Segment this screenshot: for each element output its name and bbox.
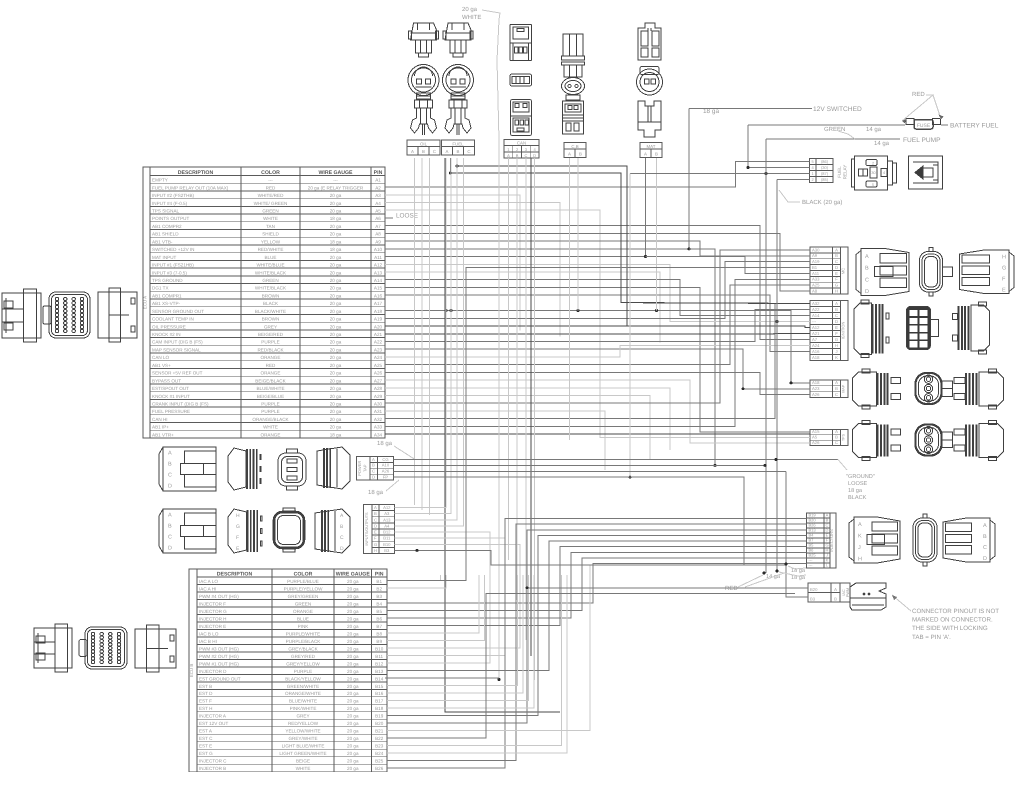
svg-text:B2: B2 xyxy=(376,586,382,591)
svg-text:A: A xyxy=(858,522,862,528)
svg-text:PURPLE: PURPLE xyxy=(261,402,279,407)
svg-text:BLACK: BLACK xyxy=(848,495,867,501)
svg-text:B20: B20 xyxy=(810,587,818,592)
svg-text:A: A xyxy=(507,153,510,158)
svg-text:DG1 TX: DG1 TX xyxy=(152,286,169,291)
svg-text:5: 5 xyxy=(872,183,874,187)
svg-text:B24: B24 xyxy=(375,751,384,756)
svg-text:PURPLE/YELLOW: PURPLE/YELLOW xyxy=(284,586,323,591)
svg-text:A10: A10 xyxy=(374,247,383,252)
svg-text:PIN: PIN xyxy=(375,571,384,577)
svg-text:A30: A30 xyxy=(812,247,820,252)
svg-text:A: A xyxy=(411,149,414,154)
svg-text:A3: A3 xyxy=(375,193,381,198)
svg-text:EST C: EST C xyxy=(199,736,213,741)
svg-text:RED/YELLOW: RED/YELLOW xyxy=(288,721,319,726)
svg-text:A: A xyxy=(374,505,377,510)
svg-text:20 ga: 20 ga xyxy=(347,684,359,689)
svg-text:B11: B11 xyxy=(375,654,383,659)
svg-text:D: D xyxy=(533,153,536,158)
svg-text:J: J xyxy=(858,545,861,551)
svg-text:POINTS OUTPUT: POINTS OUTPUT xyxy=(152,216,189,221)
svg-text:EST A: EST A xyxy=(199,729,213,734)
svg-text:WHITE/RED: WHITE/RED xyxy=(258,193,284,198)
svg-text:20 ga: 20 ga xyxy=(330,347,342,352)
svg-text:ORANGE/BLACK: ORANGE/BLACK xyxy=(252,417,289,422)
svg-text:A19: A19 xyxy=(374,317,383,322)
svg-text:D: D xyxy=(865,289,869,295)
svg-text:INPUTS/OUTPUTS: INPUTS/OUTPUTS xyxy=(365,512,369,546)
svg-text:20 ga: 20 ga xyxy=(347,751,359,756)
svg-text:F: F xyxy=(835,277,838,282)
svg-text:AB1 SHIELD: AB1 SHIELD xyxy=(152,232,179,237)
svg-text:20 ga: 20 ga xyxy=(330,209,342,214)
svg-text:PIN: PIN xyxy=(374,170,383,176)
svg-text:ORANGE/WHITE: ORANGE/WHITE xyxy=(285,691,321,696)
svg-text:ORANGE: ORANGE xyxy=(261,432,281,437)
svg-text:CRANK INPUT (DIG B (FS): CRANK INPUT (DIG B (FS) xyxy=(152,402,209,407)
svg-text:A11: A11 xyxy=(812,271,820,276)
svg-text:A30: A30 xyxy=(374,402,383,407)
svg-text:B6: B6 xyxy=(376,616,382,621)
svg-text:WIRE GAUGE: WIRE GAUGE xyxy=(336,571,371,577)
svg-text:GREY/BLACK: GREY/BLACK xyxy=(288,646,318,651)
svg-text:G: G xyxy=(374,542,377,547)
svg-text:GREY: GREY xyxy=(264,324,277,329)
svg-text:OIL: OIL xyxy=(420,141,428,146)
svg-text:EST D: EST D xyxy=(199,691,213,696)
svg-text:B: B xyxy=(655,152,658,157)
svg-text:A: A xyxy=(644,152,647,157)
svg-text:TPS GROUND: TPS GROUND xyxy=(152,278,183,283)
svg-text:A26: A26 xyxy=(812,440,820,445)
svg-text:20 ga: 20 ga xyxy=(330,355,342,360)
svg-text:WHITE: WHITE xyxy=(462,14,481,21)
svg-text:20 ga: 20 ga xyxy=(347,759,359,764)
svg-text:A32: A32 xyxy=(374,417,383,422)
svg-text:A16: A16 xyxy=(374,293,383,298)
svg-text:RED: RED xyxy=(266,185,276,190)
svg-text:A13: A13 xyxy=(383,517,391,522)
svg-text:A15: A15 xyxy=(812,429,820,434)
svg-text:CG: CG xyxy=(382,457,388,462)
svg-text:B: B xyxy=(168,524,172,530)
svg-text:AB1 COMPR2: AB1 COMPR2 xyxy=(152,224,182,229)
svg-text:LIGHT BLUE/WHITE: LIGHT BLUE/WHITE xyxy=(282,744,325,749)
svg-text:YELLOW/WHITE: YELLOW/WHITE xyxy=(285,729,320,734)
svg-text:BROWN: BROWN xyxy=(262,293,280,298)
svg-text:SWITCHED +12V IN: SWITCHED +12V IN xyxy=(152,247,195,252)
svg-text:GREEN: GREEN xyxy=(262,278,278,283)
svg-text:20 ga: 20 ga xyxy=(330,386,342,391)
svg-text:INJECTOR G: INJECTOR G xyxy=(199,609,227,614)
svg-text:B3: B3 xyxy=(384,548,390,553)
svg-text:GREEN: GREEN xyxy=(295,601,311,606)
svg-text:AB1 VS+: AB1 VS+ xyxy=(152,363,171,368)
svg-text:A18: A18 xyxy=(374,309,383,314)
svg-text:A1: A1 xyxy=(375,178,381,183)
svg-text:BLACK/YELLOW: BLACK/YELLOW xyxy=(285,676,321,681)
svg-text:B: B xyxy=(457,149,460,154)
svg-text:WHITE: WHITE xyxy=(296,766,311,771)
svg-text:CAN: CAN xyxy=(517,140,526,145)
svg-text:MAT: MAT xyxy=(647,144,656,149)
svg-text:B18: B18 xyxy=(375,706,384,711)
svg-text:D: D xyxy=(168,484,172,490)
svg-text:20 ga: 20 ga xyxy=(330,270,342,275)
svg-text:PURPLE: PURPLE xyxy=(261,340,279,345)
svg-text:F: F xyxy=(374,536,377,541)
svg-text:A4: A4 xyxy=(375,201,381,206)
svg-text:20 ga: 20 ga xyxy=(347,624,359,629)
svg-text:BLACK/WHITE: BLACK/WHITE xyxy=(255,309,286,314)
svg-text:4: 4 xyxy=(883,171,885,175)
svg-text:GREEN/WHITE: GREEN/WHITE xyxy=(287,684,319,689)
svg-text:A10: A10 xyxy=(382,463,390,468)
svg-text:A26: A26 xyxy=(382,469,390,474)
svg-text:(86): (86) xyxy=(821,159,829,164)
svg-text:F: F xyxy=(236,535,239,541)
svg-text:18 ga: 18 ga xyxy=(368,489,384,496)
svg-text:BEIGE/BLUE: BEIGE/BLUE xyxy=(257,394,284,399)
svg-text:B26: B26 xyxy=(375,766,384,771)
svg-text:B7: B7 xyxy=(376,624,382,629)
svg-text:20 ga (E RELAY TRIGGER: 20 ga (E RELAY TRIGGER xyxy=(308,185,364,190)
svg-text:18 ga: 18 ga xyxy=(330,239,342,244)
svg-text:20 ga: 20 ga xyxy=(330,255,342,260)
svg-text:C: C xyxy=(467,149,470,154)
svg-text:B19: B19 xyxy=(375,714,384,719)
svg-text:TPS SIGNAL: TPS SIGNAL xyxy=(152,209,180,214)
svg-text:14 ga: 14 ga xyxy=(866,126,882,133)
svg-text:20 ga: 20 ga xyxy=(347,706,359,711)
svg-text:E: E xyxy=(835,271,838,276)
svg-text:18 ga: 18 ga xyxy=(330,432,342,437)
svg-text:DESCRIPTION: DESCRIPTION xyxy=(217,571,253,577)
svg-text:B21: B21 xyxy=(375,729,384,734)
svg-text:B: B xyxy=(168,462,172,468)
svg-text:INJECTOR H: INJECTOR H xyxy=(199,616,226,621)
svg-text:20 ga: 20 ga xyxy=(330,193,342,198)
svg-text:DESCRIPTION: DESCRIPTION xyxy=(178,170,214,176)
svg-text:COLOR: COLOR xyxy=(294,571,313,577)
svg-text:FUEL: FUEL xyxy=(837,166,842,178)
svg-text:B: B xyxy=(835,435,838,440)
svg-text:A8: A8 xyxy=(375,232,381,237)
svg-text:BROWN: BROWN xyxy=(262,317,280,322)
svg-text:20 ga: 20 ga xyxy=(347,714,359,719)
svg-text:A28: A28 xyxy=(374,386,383,391)
svg-text:A: A xyxy=(168,513,172,519)
svg-text:B8: B8 xyxy=(376,631,382,636)
svg-text:20 ga: 20 ga xyxy=(330,340,342,345)
svg-text:20 ga: 20 ga xyxy=(330,224,342,229)
svg-text:AB1 XS-VTP-: AB1 XS-VTP- xyxy=(152,301,181,306)
svg-text:TAN: TAN xyxy=(266,224,275,229)
svg-text:A12: A12 xyxy=(383,505,391,510)
svg-text:GREY/RED: GREY/RED xyxy=(291,654,316,659)
svg-text:D: D xyxy=(835,319,838,324)
svg-text:RED: RED xyxy=(912,91,925,98)
svg-text:A33: A33 xyxy=(812,277,820,282)
svg-text:BLUE/WHITE: BLUE/WHITE xyxy=(256,386,284,391)
svg-text:ORANGE: ORANGE xyxy=(261,355,281,360)
svg-text:PWM: PWM xyxy=(846,588,850,597)
svg-text:BEIGE/BLACK: BEIGE/BLACK xyxy=(255,378,286,383)
svg-text:B: B xyxy=(834,596,837,601)
svg-text:K: K xyxy=(858,534,862,540)
svg-text:G: G xyxy=(236,524,240,530)
svg-text:PINK/WHITE: PINK/WHITE xyxy=(290,706,317,711)
svg-text:A9: A9 xyxy=(375,239,381,244)
svg-text:A: A xyxy=(168,451,172,457)
svg-text:BLUE: BLUE xyxy=(264,255,276,260)
svg-text:2: 2 xyxy=(872,162,874,166)
svg-text:B11: B11 xyxy=(383,536,391,541)
svg-text:18 ga: 18 ga xyxy=(377,440,393,447)
svg-text:20 ga: 20 ga xyxy=(347,586,359,591)
svg-text:A24: A24 xyxy=(812,343,820,348)
svg-text:FUEL PRESSURE: FUEL PRESSURE xyxy=(152,409,190,414)
svg-text:A27: A27 xyxy=(374,378,383,383)
svg-text:20 ga: 20 ga xyxy=(330,417,342,422)
svg-text:H: H xyxy=(858,557,862,563)
svg-text:20 ga: 20 ga xyxy=(347,631,359,636)
svg-text:C: C xyxy=(865,277,869,283)
svg-text:A18: A18 xyxy=(812,380,820,385)
svg-text:FUEL PUMP RELAY OUT (10A MAX): FUEL PUMP RELAY OUT (10A MAX) xyxy=(152,185,229,190)
svg-text:G: G xyxy=(835,283,838,288)
svg-text:INJECTOR A: INJECTOR A xyxy=(199,714,227,719)
svg-text:MARKED ON CONNECTOR.: MARKED ON CONNECTOR. xyxy=(912,617,993,624)
svg-text:H: H xyxy=(835,343,838,348)
svg-text:BLUE/WHITE: BLUE/WHITE xyxy=(289,699,317,704)
svg-text:C: C xyxy=(983,545,987,551)
svg-text:H: H xyxy=(1002,255,1006,261)
svg-text:H: H xyxy=(236,513,240,519)
svg-text:A23: A23 xyxy=(812,386,820,391)
svg-text:B25: B25 xyxy=(375,759,384,764)
svg-text:J: J xyxy=(835,349,837,354)
svg-text:B9: B9 xyxy=(376,639,382,644)
svg-text:A: A xyxy=(568,152,571,157)
svg-text:TPS: TPS xyxy=(841,433,845,441)
svg-text:FP: FP xyxy=(383,475,389,480)
svg-text:A24: A24 xyxy=(374,355,383,360)
svg-text:C: C xyxy=(374,517,377,522)
svg-text:20 ga: 20 ga xyxy=(347,669,359,674)
svg-text:D: D xyxy=(983,556,987,562)
svg-text:14 ga: 14 ga xyxy=(874,140,890,147)
svg-text:20 ga: 20 ga xyxy=(347,699,359,704)
svg-text:20 ga: 20 ga xyxy=(347,661,359,666)
svg-text:LOOSE: LOOSE xyxy=(848,481,868,487)
svg-text:D: D xyxy=(168,546,172,552)
svg-text:A25: A25 xyxy=(374,363,383,368)
svg-text:CAM INPUT (DIG B (FS): CAM INPUT (DIG B (FS) xyxy=(152,340,203,345)
svg-text:A19: A19 xyxy=(812,259,820,264)
svg-text:PWM #3 OUT (HG): PWM #3 OUT (HG) xyxy=(199,646,239,651)
svg-text:ECU B: ECU B xyxy=(189,664,194,677)
svg-text:"GROUND": "GROUND" xyxy=(846,474,875,480)
svg-text:BLACK (20 ga): BLACK (20 ga) xyxy=(802,199,842,206)
svg-text:A22: A22 xyxy=(812,307,820,312)
svg-text:A12: A12 xyxy=(374,263,383,268)
svg-text:20 ga: 20 ga xyxy=(330,324,342,329)
svg-text:INPUT #1 (FS21HB): INPUT #1 (FS21HB) xyxy=(152,263,194,268)
svg-text:MAP: MAP xyxy=(841,384,845,392)
svg-text:CAN HI: CAN HI xyxy=(152,417,168,422)
svg-text:GREY: GREY xyxy=(296,714,309,719)
svg-text:B10: B10 xyxy=(383,542,391,547)
svg-text:B1: B1 xyxy=(812,265,818,270)
svg-text:20 ga: 20 ga xyxy=(330,378,342,383)
svg-text:20 ga: 20 ga xyxy=(330,317,342,322)
svg-text:20 ga: 20 ga xyxy=(347,594,359,599)
svg-text:THE SIDE WITH LOCKING: THE SIDE WITH LOCKING xyxy=(912,625,988,632)
svg-text:RED/BLACK: RED/BLACK xyxy=(257,347,284,352)
svg-text:20 ga: 20 ga xyxy=(347,639,359,644)
svg-text:AB1 VTR+: AB1 VTR+ xyxy=(152,432,174,437)
svg-text:A34: A34 xyxy=(374,432,383,437)
svg-text:18 ga: 18 ga xyxy=(848,488,863,494)
svg-text:PWM #4 OUT (HG): PWM #4 OUT (HG) xyxy=(199,594,239,599)
svg-text:IAC B LO: IAC B LO xyxy=(199,631,219,636)
svg-text:B22: B22 xyxy=(375,736,384,741)
svg-text:EST H: EST H xyxy=(199,706,212,711)
svg-text:B16: B16 xyxy=(375,691,384,696)
svg-text:B: B xyxy=(372,463,375,468)
svg-text:F: F xyxy=(835,331,838,336)
svg-text:EST E: EST E xyxy=(199,744,212,749)
svg-text:20 ga: 20 ga xyxy=(347,616,359,621)
svg-text:CONNECTOR PINOUT IS NOT: CONNECTOR PINOUT IS NOT xyxy=(912,608,999,615)
svg-text:20 ga: 20 ga xyxy=(330,394,342,399)
svg-text:B3: B3 xyxy=(376,594,382,599)
svg-text:LIGHT GREEN/WHITE: LIGHT GREEN/WHITE xyxy=(279,751,326,756)
svg-text:C: C xyxy=(168,473,172,479)
svg-text:B3: B3 xyxy=(810,596,816,601)
svg-text:RED: RED xyxy=(725,585,738,592)
svg-text:TAB = PIN 'A'.: TAB = PIN 'A'. xyxy=(912,634,951,641)
svg-text:A20: A20 xyxy=(374,324,383,329)
svg-text:PURPLE/BLACK: PURPLE/BLACK xyxy=(286,639,322,644)
svg-text:A14: A14 xyxy=(812,313,820,318)
svg-text:20 ga: 20 ga xyxy=(347,744,359,749)
svg-text:A5: A5 xyxy=(812,435,818,440)
svg-text:PINK: PINK xyxy=(298,624,310,629)
svg-text:20 ga: 20 ga xyxy=(347,676,359,681)
svg-text:AB1 COMPR1: AB1 COMPR1 xyxy=(152,293,182,298)
svg-text:E: E xyxy=(374,530,377,535)
svg-text:20 ga: 20 ga xyxy=(330,301,342,306)
svg-text:18 ga: 18 ga xyxy=(330,247,342,252)
svg-text:H: H xyxy=(374,548,377,553)
svg-text:INJECTOR F: INJECTOR F xyxy=(199,601,226,606)
svg-text:A: A xyxy=(835,301,838,306)
svg-text:WHITE: WHITE xyxy=(263,425,278,430)
svg-text:B15: B15 xyxy=(375,684,384,689)
svg-text:20 ga: 20 ga xyxy=(330,278,342,283)
svg-text:RELAY: RELAY xyxy=(843,165,848,180)
svg-text:E: E xyxy=(835,325,838,330)
svg-text:AB1 VTB-: AB1 VTB- xyxy=(152,239,173,244)
svg-text:20 ga: 20 ga xyxy=(330,425,342,430)
svg-text:BEIGE: BEIGE xyxy=(296,759,310,764)
svg-text:MAT INPUT: MAT INPUT xyxy=(152,255,177,260)
svg-text:PURPLE: PURPLE xyxy=(261,409,279,414)
svg-text:B20: B20 xyxy=(375,721,384,726)
svg-text:20 ga: 20 ga xyxy=(330,309,342,314)
svg-text:ORANGE: ORANGE xyxy=(261,371,281,376)
svg-text:20 ga: 20 ga xyxy=(330,363,342,368)
svg-text:B: B xyxy=(516,153,519,158)
svg-text:A: A xyxy=(372,457,375,462)
svg-text:INJECTORS: INJECTORS xyxy=(829,529,834,552)
svg-text:20 ga: 20 ga xyxy=(330,286,342,291)
svg-text:PURPLE: PURPLE xyxy=(294,669,312,674)
svg-text:TAP: TAP xyxy=(363,464,368,472)
svg-text:INJECTOR D: INJECTOR D xyxy=(199,669,227,674)
svg-text:(30): (30) xyxy=(821,165,829,170)
svg-text:WHITE/BLACK: WHITE/BLACK xyxy=(255,270,287,275)
svg-text:OIL PRESSURE: OIL PRESSURE xyxy=(152,324,186,329)
svg-text:IAC B HI: IAC B HI xyxy=(199,639,217,644)
svg-text:A: A xyxy=(983,523,987,529)
svg-text:A: A xyxy=(835,247,838,252)
svg-text:YELLOW: YELLOW xyxy=(261,239,281,244)
svg-text:20 ga: 20 ga xyxy=(330,263,342,268)
svg-text:A23: A23 xyxy=(374,347,383,352)
svg-text:---: --- xyxy=(268,178,273,183)
svg-text:IAC A LO: IAC A LO xyxy=(199,579,218,584)
svg-text:KNOCK #2 IN: KNOCK #2 IN xyxy=(152,332,181,337)
svg-text:20 ga: 20 ga xyxy=(347,736,359,741)
svg-text:A15: A15 xyxy=(374,286,383,291)
svg-text:C: C xyxy=(524,153,527,158)
svg-text:ECU A: ECU A xyxy=(143,296,148,309)
svg-text:EST 12V OUT: EST 12V OUT xyxy=(199,721,228,726)
svg-text:INJECTOR C: INJECTOR C xyxy=(199,759,227,764)
svg-text:A33: A33 xyxy=(374,425,383,430)
svg-text:20 ga: 20 ga xyxy=(330,409,342,414)
svg-text:EST GROUND OUT: EST GROUND OUT xyxy=(199,676,241,681)
svg-text:B: B xyxy=(835,307,838,312)
svg-text:A13: A13 xyxy=(374,270,383,275)
svg-text:20 ga: 20 ga xyxy=(330,293,342,298)
svg-text:B10: B10 xyxy=(375,646,384,651)
svg-text:CAN LO: CAN LO xyxy=(152,355,170,360)
svg-text:A7: A7 xyxy=(375,224,381,229)
svg-text:SENSOR GROUND OUT: SENSOR GROUND OUT xyxy=(152,309,204,314)
svg-text:A17: A17 xyxy=(374,301,383,306)
svg-text:PURPLE/BLUE: PURPLE/BLUE xyxy=(287,579,319,584)
svg-text:INJECTOR E: INJECTOR E xyxy=(199,624,226,629)
svg-text:A2: A2 xyxy=(375,185,381,190)
svg-text:A18: A18 xyxy=(812,355,820,360)
svg-text:B: B xyxy=(579,152,582,157)
svg-text:A: A xyxy=(834,587,837,592)
svg-text:INJECTOR B: INJECTOR B xyxy=(199,766,226,771)
svg-text:A25: A25 xyxy=(812,283,820,288)
svg-text:20 ga: 20 ga xyxy=(347,729,359,734)
svg-text:EST G: EST G xyxy=(199,751,213,756)
svg-text:A7: A7 xyxy=(812,337,818,342)
svg-text:G: G xyxy=(1002,266,1006,272)
svg-text:A: A xyxy=(446,149,449,154)
svg-text:A4: A4 xyxy=(384,523,390,528)
svg-text:IGNITION: IGNITION xyxy=(840,322,845,340)
